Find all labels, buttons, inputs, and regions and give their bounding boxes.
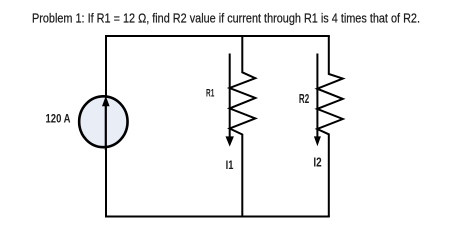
current source arrow (up) [102,96,110,150]
resistor R1 (middle branch with zigzag) [230,36,256,217]
svg-text:Problem 1: If R1 = 12 Ω, find: Problem 1: If R1 = 12 Ω, find R2 value i… [32,12,420,26]
resistor R2 (right branch with zigzag) [317,36,343,217]
wire: left rail through source [105,35,107,218]
current arrow I1 (down) [226,54,234,147]
current source circle [79,96,127,147]
svg-text:R1: R1 [206,88,214,100]
svg-text:I1: I1 [226,158,234,172]
wire: top rail [105,35,330,37]
svg-text:120 A: 120 A [46,112,71,126]
svg-text:I2: I2 [313,156,321,170]
wire: bottom rail [105,216,330,218]
svg-text:R2: R2 [299,92,309,106]
current arrow I2 (down) [314,54,321,147]
